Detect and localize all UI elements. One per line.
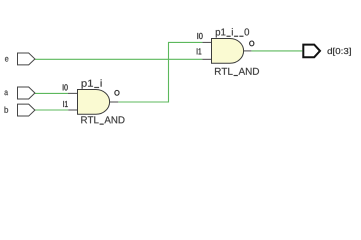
pin stub U2 I1 (202, 58, 211, 60)
pin stub U1 O (110, 101, 119, 103)
pin label U2 I1 (197, 48, 202, 54)
port label b (5, 107, 9, 113)
and-gate U1 p1_i body (78, 90, 110, 115)
cell type label RTL_AND (U1) (81, 116, 124, 124)
wire net p1_i_n: U1 output O up and over to U2 pin I0 (118, 42, 202, 102)
cell type label RTL_AND (U2) (215, 68, 259, 76)
wire net a: port a to U1 pin I0 (35, 92, 68, 94)
output port d (303, 45, 320, 58)
port label a (5, 91, 9, 96)
pin label U1 O (115, 90, 120, 95)
pin label U2 O (249, 41, 254, 46)
pin label U2 I0 (197, 33, 202, 39)
input port a (18, 87, 35, 99)
pin stub U2 I0 (202, 41, 211, 43)
input port b (18, 104, 35, 116)
pin stub U2 O (244, 50, 251, 52)
input port e (18, 53, 35, 65)
pin label U1 I0 (63, 84, 68, 90)
port label d[0:3] (328, 48, 351, 56)
pin label U1 I1 (63, 101, 67, 107)
port label e (5, 57, 8, 62)
instance label p1_i__0 (216, 28, 249, 37)
pin stub U1 I0 (68, 92, 78, 94)
wire net d: U2 output O to port d (251, 50, 302, 52)
pin stub U1 I1 (68, 109, 77, 111)
instance label p1_i (82, 79, 102, 88)
wire net b: port b to U1 pin I1 (35, 109, 68, 111)
wire net e: port e to U2 pin I1 (35, 58, 202, 60)
and-gate U2 p1_i__0 body (212, 39, 244, 64)
